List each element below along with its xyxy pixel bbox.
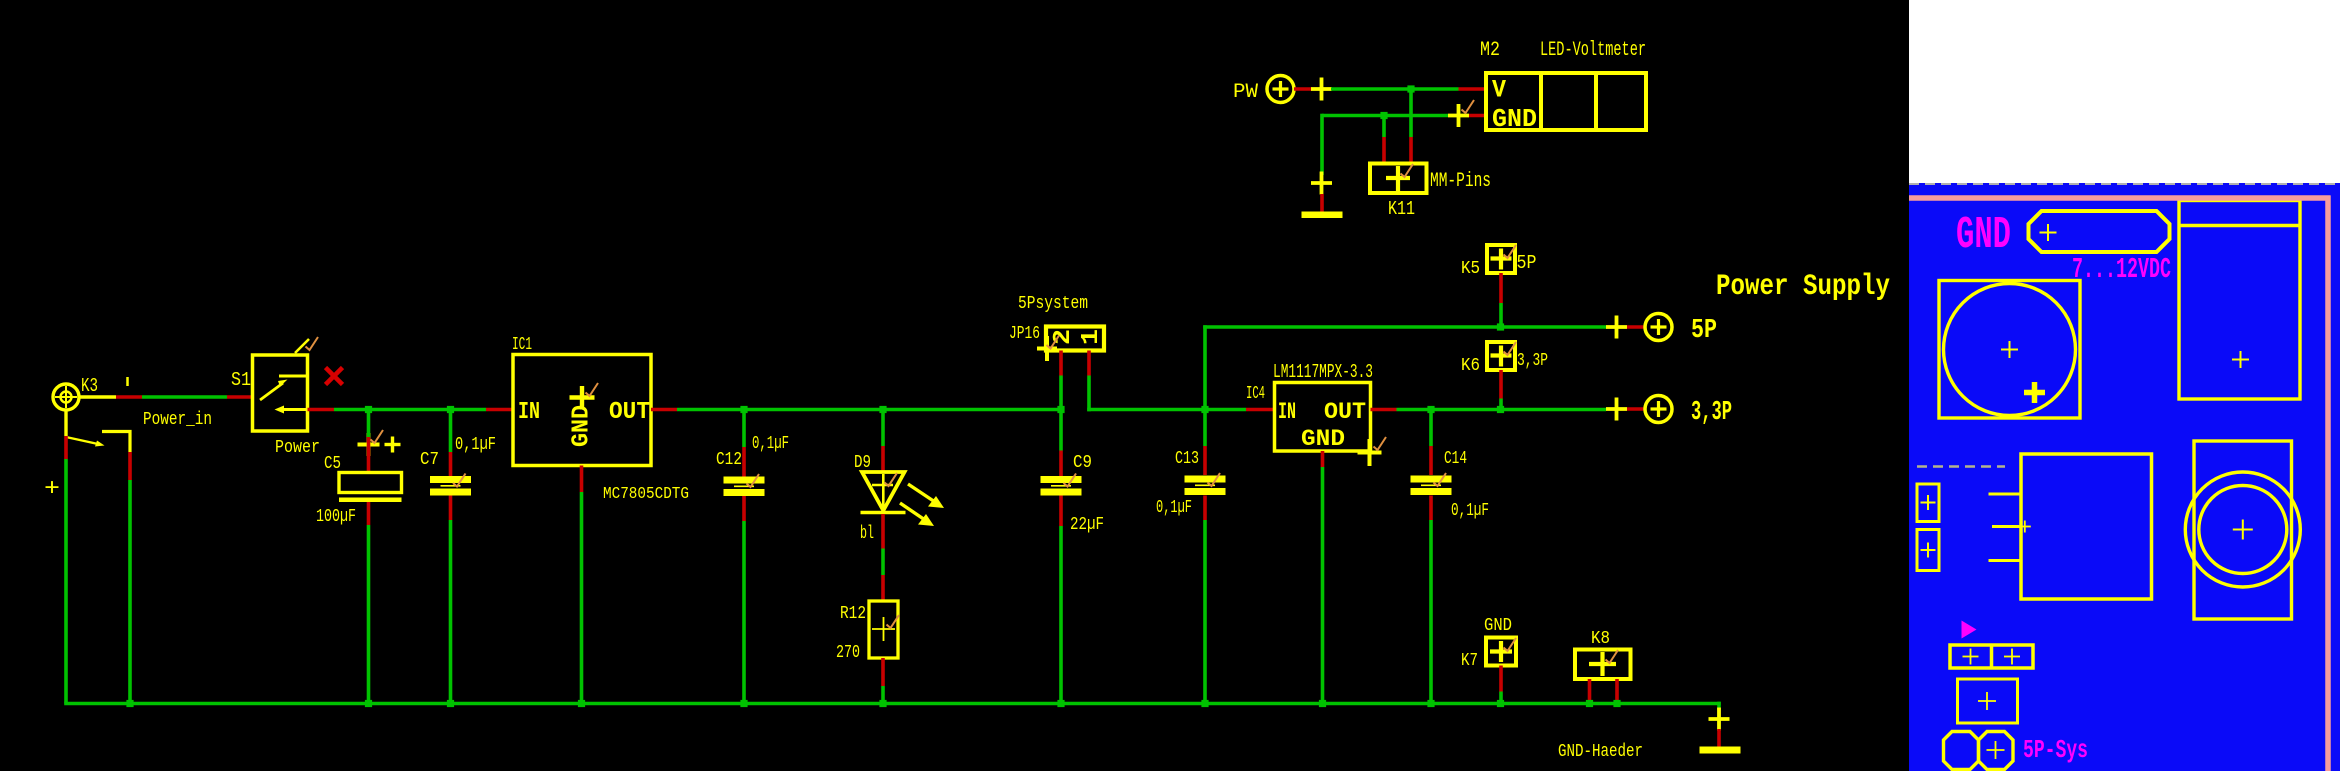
jumper JP16 xyxy=(1009,294,1105,361)
net cross PW xyxy=(1311,78,1332,101)
pcb power jack footprint xyxy=(2179,201,2300,400)
svg-text:GND-Haeder: GND-Haeder xyxy=(1558,742,1643,762)
junction bus K8 pin2 xyxy=(1613,700,1620,707)
pcb label GND xyxy=(1956,210,2011,261)
svg-text:IC4: IC4 xyxy=(1246,384,1265,404)
svg-text:OUT: OUT xyxy=(1324,399,1366,425)
wire Power_in xyxy=(116,397,252,430)
svg-text:Power: Power xyxy=(275,438,320,458)
connector K7 xyxy=(1461,616,1516,671)
regulator IC1 MC7805CDTG xyxy=(512,335,689,504)
junction C12 rail xyxy=(740,406,747,413)
wire V net xyxy=(1331,87,1486,91)
pcb label 5P-Sys xyxy=(2023,735,2088,765)
svg-text:C14: C14 xyxy=(1444,449,1467,469)
svg-text:Power_in: Power_in xyxy=(143,410,212,430)
svg-text:0,1µF: 0,1µF xyxy=(455,435,496,455)
svg-text:K5: K5 xyxy=(1461,259,1480,279)
wire K7 to bus xyxy=(1499,666,1503,704)
svg-text:LM1117MPX-3.3: LM1117MPX-3.3 xyxy=(1273,361,1373,383)
wire K3 pin1 to bus xyxy=(64,436,68,704)
svg-text:LED-Voltmeter: LED-Voltmeter xyxy=(1540,39,1646,62)
svg-text:D9: D9 xyxy=(854,453,871,473)
junction GND net xyxy=(1380,112,1387,119)
capacitor C5 xyxy=(316,454,402,527)
pcb pad single box xyxy=(1958,679,2018,723)
pcb panel white margin xyxy=(1909,0,2340,183)
pin 5P xyxy=(1645,314,1717,347)
junction bus C5 xyxy=(365,700,372,707)
svg-text:GND: GND xyxy=(1301,426,1345,452)
connector K8 xyxy=(1575,629,1631,679)
wire cross to GND pin xyxy=(1469,114,1486,118)
svg-text:S1: S1 xyxy=(231,369,251,391)
net cross 3,3P xyxy=(1606,398,1627,421)
svg-text:3,3P: 3,3P xyxy=(1517,351,1548,371)
svg-text:M2: M2 xyxy=(1480,39,1500,62)
wire rail to C13 xyxy=(1203,410,1207,476)
svg-text:K11: K11 xyxy=(1388,198,1415,220)
wire V branch to K11 pin1 xyxy=(1409,89,1413,164)
capacitor C7 xyxy=(420,435,496,496)
wire K6 to 3.3V rail xyxy=(1499,370,1503,410)
svg-text:5P-Sys: 5P-Sys xyxy=(2023,735,2088,765)
svg-text:OUT: OUT xyxy=(609,399,650,426)
pcb capacitor footprint big xyxy=(1939,281,2080,419)
LED D9 xyxy=(854,453,944,544)
wire K8 pin1 to bus xyxy=(1588,679,1592,705)
svg-text:PW: PW xyxy=(1233,81,1258,104)
svg-text:MM-Pins: MM-Pins xyxy=(1430,170,1491,193)
junction K6 rail xyxy=(1497,406,1504,413)
wire C14 to bus xyxy=(1429,496,1433,704)
junction bus K8 pin1 xyxy=(1586,700,1593,707)
wire IC1 GND to bus xyxy=(580,466,584,704)
jack switch contact K3 xyxy=(66,432,130,453)
junction C7 rail xyxy=(447,406,454,413)
svg-text:C9: C9 xyxy=(1073,453,1092,473)
wire rail to C9 xyxy=(1059,410,1063,477)
wire PW to cross xyxy=(1294,87,1312,91)
wire C9 to bus xyxy=(1059,496,1063,704)
wire GND net to voltmeter xyxy=(1322,114,1448,118)
svg-text:K3: K3 xyxy=(81,375,98,397)
regulator IC4 LM1117MPX-3.3 xyxy=(1246,361,1386,466)
wire D9 to R12 xyxy=(881,514,885,601)
net cross above ground xyxy=(1311,172,1332,195)
net cross 5P xyxy=(1606,316,1627,339)
pin 3,3P xyxy=(1645,396,1732,429)
svg-text:0,1µF: 0,1µF xyxy=(1156,498,1192,518)
junction V net xyxy=(1407,85,1414,92)
wire rail to C5 xyxy=(367,410,371,473)
junction bus K7 xyxy=(1497,700,1504,707)
wire GND net down xyxy=(1320,114,1324,175)
pcb pad octagon xyxy=(1944,732,1979,770)
wire rail to C12 xyxy=(742,410,746,477)
svg-text:K8: K8 xyxy=(1591,629,1610,649)
wire C13 to bus xyxy=(1203,496,1207,704)
junction bus C9 xyxy=(1057,700,1064,707)
pcb pad box bottom xyxy=(1979,732,2014,770)
wire 5P rail xyxy=(1203,325,1607,409)
wire JP16 pin1 to IC4 rail xyxy=(1087,351,1274,412)
svg-text:GND: GND xyxy=(1956,210,2011,261)
wire K3 pin2 to bus xyxy=(128,452,132,705)
pin PW xyxy=(1233,76,1294,105)
wire rail to C14 xyxy=(1429,410,1433,476)
label + K3 xyxy=(44,476,60,503)
svg-text:R12: R12 xyxy=(840,604,866,624)
junction C9 JP16 rail xyxy=(1057,406,1064,413)
junction bus IC4 GND xyxy=(1319,700,1326,707)
svg-text:Power Supply: Power Supply xyxy=(1716,270,1890,304)
wire JP16 pin2 to rail xyxy=(1059,351,1063,410)
svg-text:MC7805CDTG: MC7805CDTG xyxy=(603,485,689,504)
svg-text:3,3P: 3,3P xyxy=(1691,398,1732,428)
svg-text:IN: IN xyxy=(518,399,540,426)
svg-text:5P: 5P xyxy=(1517,252,1537,274)
capacitor C13 xyxy=(1156,449,1226,518)
wire C12 to bus xyxy=(742,496,746,704)
svg-text:C12: C12 xyxy=(716,450,742,470)
capacitor C9 xyxy=(1041,453,1105,535)
net name tick Power_in xyxy=(126,377,129,386)
svg-text:V: V xyxy=(1492,76,1506,105)
ground symbol bottom xyxy=(1558,742,1741,762)
pcb pad small 1 xyxy=(1917,484,1939,522)
svg-text:5Psystem: 5Psystem xyxy=(1018,294,1088,314)
connector K11 MM-Pins xyxy=(1370,164,1491,221)
no-connect X mark xyxy=(326,368,343,385)
svg-text:C13: C13 xyxy=(1175,449,1199,469)
svg-text:5P: 5P xyxy=(1691,316,1717,346)
junction bus IC1 GND xyxy=(578,700,585,707)
title Power Supply xyxy=(1716,270,1890,304)
wire IC4 GND to bus xyxy=(1321,451,1325,704)
junction C13 rail xyxy=(1201,406,1208,413)
net cross GND voltmeter xyxy=(1448,100,1474,127)
svg-text:K6: K6 xyxy=(1461,356,1480,376)
junction 5P rail K5 xyxy=(1497,323,1504,330)
ground symbol top xyxy=(1302,212,1343,219)
wire cross to 5P pin xyxy=(1627,325,1645,329)
svg-text:GND: GND xyxy=(1492,104,1537,134)
svg-text:+: + xyxy=(44,476,60,503)
junction bus C14 xyxy=(1427,700,1434,707)
svg-text:1: 1 xyxy=(1078,329,1105,345)
wire C7 to bus xyxy=(449,496,453,704)
wire rail to C7 xyxy=(449,410,453,477)
pcb regulator footprint xyxy=(1989,454,2152,599)
svg-text:bl: bl xyxy=(860,524,874,544)
switch S1 xyxy=(231,337,320,458)
pcb pad small 2 xyxy=(1917,530,1939,571)
svg-text:7...12VDC: 7...12VDC xyxy=(2072,253,2171,286)
pcb pad GND strip xyxy=(2029,211,2170,252)
wire to ground xyxy=(1320,194,1324,212)
junction C14 rail xyxy=(1427,406,1434,413)
svg-text:GND: GND xyxy=(1484,616,1512,636)
svg-text:C5: C5 xyxy=(324,454,341,474)
pcb frame dashed top xyxy=(1909,183,2340,185)
connector K3 xyxy=(53,375,116,436)
wire cross to 3,3P pin xyxy=(1627,407,1645,411)
connector K5 xyxy=(1461,245,1537,279)
svg-text:K7: K7 xyxy=(1461,651,1478,671)
voltmeter M2 xyxy=(1480,39,1646,134)
junction bus C7 xyxy=(447,700,454,707)
junction bus K3 pin2 xyxy=(126,700,133,707)
capacitor C5 polarity marks xyxy=(358,430,401,456)
wire C5 to bus xyxy=(367,502,371,704)
junction D9 rail xyxy=(879,406,886,413)
wire K5 to 5P rail xyxy=(1499,273,1503,327)
wire GND branch to K11 pin2 xyxy=(1382,116,1386,164)
pcb pink border xyxy=(1909,196,2331,771)
ground bus wire xyxy=(64,702,1721,706)
junction C5 rail xyxy=(365,406,372,413)
wire to ground bottom xyxy=(1717,729,1721,747)
svg-text:22µF: 22µF xyxy=(1070,515,1104,535)
connector K6 xyxy=(1461,342,1548,376)
junction bus C12 xyxy=(740,700,747,707)
pcb label 7...12VDC xyxy=(2072,253,2171,286)
wire IC4 OUT 3.3V rail xyxy=(1371,408,1607,412)
svg-text:IC1: IC1 xyxy=(512,335,532,355)
junction bus C13 xyxy=(1201,700,1208,707)
resistor R12 xyxy=(836,601,899,663)
pcb connector 2pin footprint xyxy=(1950,645,2033,668)
wire IC1 OUT 5V rail xyxy=(651,408,1061,412)
svg-text:0,1µF: 0,1µF xyxy=(752,434,789,454)
svg-text:IN: IN xyxy=(1278,399,1296,425)
svg-text:C7: C7 xyxy=(420,450,439,470)
pcb dashed outline xyxy=(1917,465,2005,467)
svg-text:GND: GND xyxy=(569,405,596,447)
net cross GND-Haeder xyxy=(1709,708,1730,731)
wire K8 pin2 to bus xyxy=(1615,679,1619,705)
pcb panel blue board area xyxy=(1909,183,2340,771)
svg-text:270: 270 xyxy=(836,643,860,663)
pcb capacitor footprint round xyxy=(2185,441,2300,619)
svg-text:100µF: 100µF xyxy=(316,507,356,527)
capacitor C14 xyxy=(1411,449,1490,521)
wire S1 to IC1 5V input rail xyxy=(308,408,514,412)
svg-text:0,1µF: 0,1µF xyxy=(1451,501,1489,521)
pcb marker triangle xyxy=(1962,621,1977,639)
wire R12 to bus xyxy=(881,658,885,704)
wire rail to D9 xyxy=(881,410,885,472)
wire bus to GND-Haeder xyxy=(1717,702,1721,710)
svg-text:JP16: JP16 xyxy=(1009,324,1040,344)
junction bus R12 xyxy=(879,700,886,707)
capacitor C12 xyxy=(716,434,789,496)
